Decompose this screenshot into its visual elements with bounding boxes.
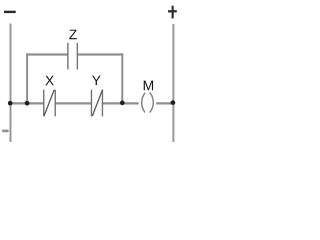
minus terminal (top left) bbox=[4, 11, 16, 13]
wire: branch top segment from contact Z bbox=[77, 53, 123, 55]
stray minus mark (bottom left) bbox=[2, 130, 8, 133]
contact Y (normally closed) bbox=[91, 90, 102, 117]
contact X (normally closed) bbox=[44, 90, 56, 117]
coil M (relay coil parentheses) bbox=[142, 92, 154, 112]
wire: rung segment contact X to contact Y bbox=[55, 102, 91, 104]
junction node: left rail / rung bbox=[8, 101, 13, 106]
wire: branch left leg (from rung up) bbox=[26, 53, 28, 103]
junction node: branch left leg / rung bbox=[25, 101, 30, 106]
wire: rung segment coil M to right rail bbox=[156, 102, 174, 104]
junction node: rung / right rail bbox=[171, 100, 176, 105]
wire: rung segment left rail to contact X bbox=[10, 102, 44, 104]
contact Z (normally open) bbox=[68, 43, 77, 70]
label M bbox=[144, 81, 153, 91]
label Z bbox=[69, 30, 77, 39]
junction node: branch right leg / rung bbox=[120, 101, 125, 106]
wire: branch right leg (down to rung) bbox=[121, 53, 123, 103]
plus terminal (top right) bbox=[168, 6, 177, 19]
label X bbox=[45, 76, 54, 85]
wire: branch top segment to contact Z bbox=[26, 53, 68, 55]
label Y bbox=[92, 76, 101, 85]
right rail (positive bus) bbox=[172, 24, 174, 142]
left rail (negative bus) bbox=[10, 24, 12, 143]
wire: rung segment contact Y to coil M bbox=[102, 102, 138, 104]
